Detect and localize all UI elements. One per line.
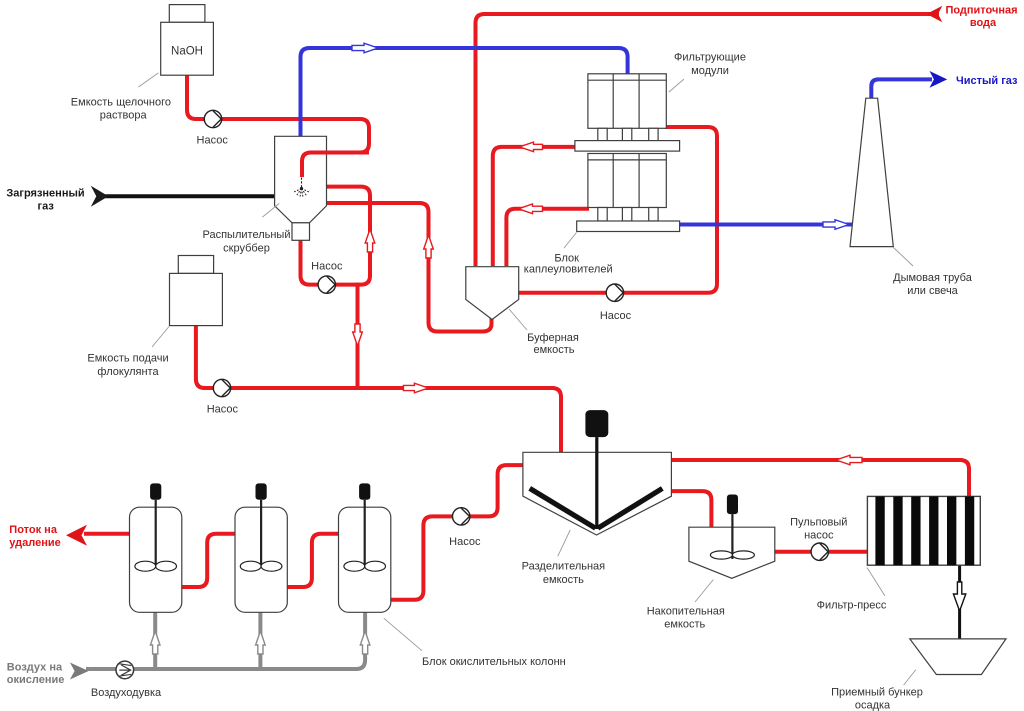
svg-text:Пульповый: Пульповый [790,516,847,528]
stirrer: separation tank agitator [585,410,608,437]
column 1: oxidation column with stirrer [130,507,182,612]
flow arrow right (clean gas to chimney, blue) [823,220,849,230]
leader: buffer tank label [509,309,527,330]
pump P3: flocculant dosing pump [213,379,230,396]
wire: scrubber recirculation line (scrubber bottom - pump - riser - scrubber) [301,187,371,285]
flow arrow up (buffer return riser) [424,235,434,258]
spray nozzle symbol inside scrubber [301,178,303,188]
stack: chimney / flare (trapezoid) [850,98,893,246]
column 2: oxidation column with stirrer [235,507,287,612]
svg-text:Приемный бункер: Приемный бункер [831,686,923,698]
blower: air blower symbol [116,661,134,679]
wire: buffer tank return line to scrubber [324,203,492,332]
svg-text:емкость: емкость [533,344,574,356]
leader: filter press label [867,568,885,597]
flow arrow up (air to column 2) [256,631,266,654]
wire: clean gas line to chimney (blue) [679,223,855,227]
wire: make-up water line (top right - buffer tank) [476,14,940,266]
svg-text:Дымовая труба: Дымовая труба [893,272,973,284]
svg-text:Фильтр-пресс: Фильтр-пресс [817,600,887,612]
leader: hopper label [904,670,916,686]
pump P6: pulp pump [811,543,828,560]
flow arrow up (air to column 1) [150,631,160,654]
svg-text:Воздуходувка: Воздуходувка [91,687,162,699]
leader: flocculant tank label [152,327,169,348]
svg-text:Загрязненный: Загрязненный [6,187,84,199]
svg-text:осадка: осадка [855,700,891,711]
svg-text:флокулянта: флокулянта [97,366,159,378]
svg-text:насос: насос [804,530,834,542]
svg-text:Поток на: Поток на [9,524,58,536]
wire: spray feed stub inside scrubber [302,153,369,178]
svg-text:каплеуловителей: каплеуловителей [524,264,613,276]
vessel: spray scrubber body [275,136,327,223]
wire: air branch to column 2 (gray) [258,611,262,669]
wire: filter module stack 1 drain line to buffer tank [493,147,576,266]
pump P2: scrubber recirculation pump [318,276,335,293]
svg-text:удаление: удаление [9,537,60,549]
scraper: separation tank rake (thick V) [530,488,663,528]
wire: filter press cake discharge line (black) [958,565,961,639]
flow arrow left (filtrate return) [836,455,862,465]
tank: accumulation tank (pentagon) with stirrer [689,527,775,578]
wire: air branch to column 1 (gray) [153,611,157,669]
hopper: sludge receiving hopper [910,639,1006,675]
svg-text:Емкость щелочного: Емкость щелочного [71,96,171,108]
wire: flocculant dosing line (tank - pump - separation tank) [196,326,561,454]
svg-text:Чистый газ: Чистый газ [956,75,1018,87]
svg-text:Воздух на: Воздух на [7,662,63,674]
leader: separation tank label [558,530,571,556]
wire: filter module stack 2 drain line to buffer tank [506,209,589,266]
svg-text:Распылительный: Распылительный [203,229,291,241]
svg-text:Насос: Насос [449,536,481,548]
wire: buffer tank to filter modules irrigation line [518,127,717,293]
flow arrow right (scrubber gas to filters, blue) [352,43,378,53]
terminal arrow: clean gas outlet (blue, points right) [930,71,948,88]
wire: pulp line (accumulation tank - pulp pump - filter press) [774,550,868,554]
flow arrow down (blowdown branch) [353,324,363,346]
pump P4: buffer transfer pump [606,284,623,301]
wire: separation tank sludge line to accumulation tank [670,491,711,529]
svg-text:Емкость подачи: Емкость подачи [87,353,168,365]
svg-text:Буферная: Буферная [527,332,579,344]
filter module stack 1 (three modules on base plate) [588,74,666,129]
svg-text:Подпиточная: Подпиточная [945,5,1017,17]
svg-text:раствора: раствора [100,110,148,122]
svg-text:емкость: емкость [543,574,584,586]
svg-text:вода: вода [970,17,997,29]
pump P1: NaOH dosing pump [204,110,221,127]
flow arrow up (air to column 3) [360,631,370,654]
terminal arrow: disposal stream (red, points left) [66,525,87,546]
leader: droplet catcher label [564,233,577,249]
svg-text:скруббер: скруббер [223,242,270,254]
svg-text:Насос: Насос [600,310,632,322]
pump P5: transfer pump to separation tank [453,508,470,525]
filter module stack 2 / droplet catcher block [588,154,666,208]
tank: flocculant supply tank [178,256,213,274]
flow arrow down (filter press cake discharge, black) [953,582,965,611]
flow arrow right (flocculant line) [403,383,428,393]
filter press (striped plate pack) [867,496,980,565]
flow arrow up (scrubber recirculation riser) [365,229,375,252]
wire: column 3 to separation tank line (via pump) [389,465,524,600]
leader: oxidation columns label [384,618,422,651]
svg-text:Насос: Насос [207,403,239,415]
wire: scrubber blowdown branch [356,283,360,388]
svg-text:Насос: Насос [311,261,343,273]
wire: NaOH dosing line (tank - pump - scrubber spray) [187,73,369,177]
svg-text:Фильтрующие: Фильтрующие [674,52,746,64]
tank: separation tank (V-bottom) [523,452,672,535]
svg-text:NaOH: NaOH [171,45,203,57]
column 3: oxidation column with stirrer [339,507,391,612]
leader: alkaline tank label [138,73,158,87]
svg-text:Насос: Насос [197,134,229,146]
terminal arrow: make-up water inlet (red, points left) [927,6,943,22]
svg-text:емкость: емкость [664,619,705,631]
flow arrow left (stack 1 drain) [520,142,543,152]
wire: disposal stream line from column 1 [84,532,131,536]
wire: air main from blower to columns (gray) [86,611,365,669]
leader: chimney label [894,248,914,267]
svg-text:Разделительная: Разделительная [522,561,606,573]
wire: chimney outlet line (blue) [871,79,932,99]
tank: buffer tank (pentagon) [466,267,519,320]
leader: filter modules label [669,79,684,92]
svg-text:модули: модули [691,65,729,77]
svg-text:Блок окислительных колонн: Блок окислительных колонн [422,656,566,668]
leader: scrubber label [262,204,279,218]
wire: scrubber gas outlet to filter modules (blue) [301,48,628,137]
svg-text:окисление: окисление [7,674,65,686]
wire: column 1 to column 2 line [180,534,236,587]
flow arrow left (stack 2 drain) [519,204,543,214]
svg-text:газ: газ [38,201,55,213]
leader: accumulation tank label [695,580,713,603]
svg-text:или свеча: или свеча [907,285,958,297]
terminal arrow: air inlet (gray, points right) [70,663,89,680]
wire: filtrate return line (filter press - separation tank) [670,460,969,498]
svg-text:Накопительная: Накопительная [647,606,725,618]
wire: column 2 to column 3 line [285,534,341,587]
wire: contaminated gas inlet line (black) [105,194,276,198]
tank: NaOH alkaline solution tank [169,5,205,23]
terminal arrow: contaminated gas inlet (black, points right) [91,186,109,207]
